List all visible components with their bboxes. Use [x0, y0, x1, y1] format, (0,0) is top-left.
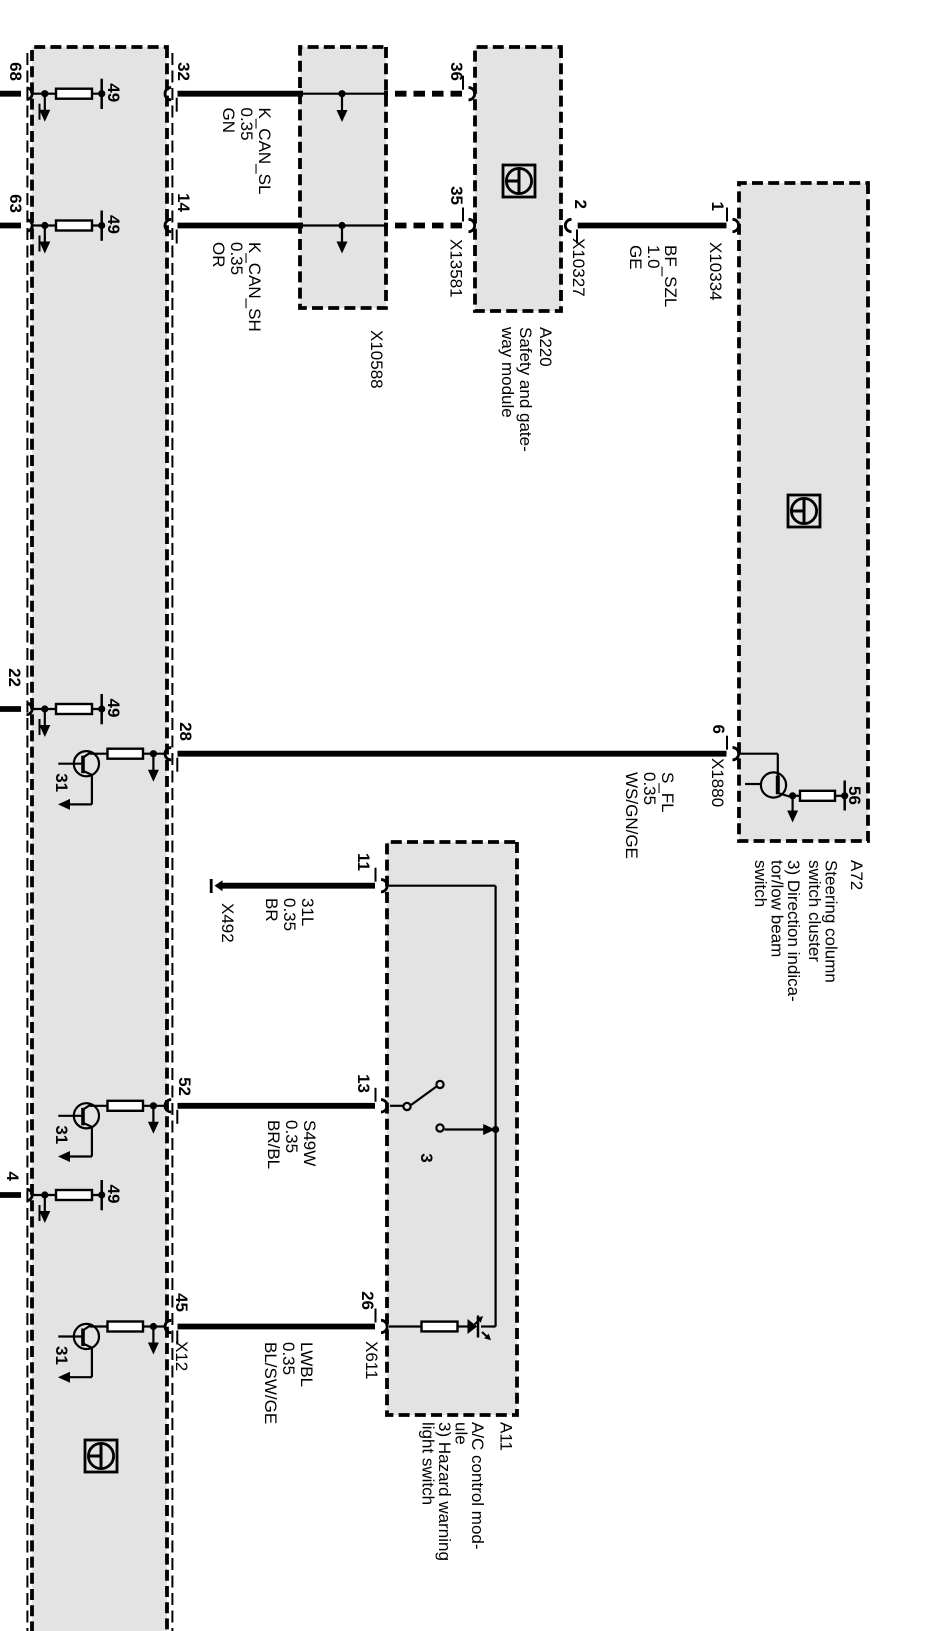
- svg-text:13: 13: [354, 1074, 373, 1093]
- svg-text:1: 1: [708, 202, 727, 211]
- svg-text:26: 26: [358, 1291, 377, 1310]
- svg-text:0.35: 0.35: [227, 242, 246, 275]
- svg-text:35: 35: [447, 186, 466, 205]
- svg-text:36: 36: [447, 62, 466, 81]
- svg-text:way module: way module: [498, 326, 517, 418]
- svg-text:BL/SW/GE: BL/SW/GE: [261, 1342, 280, 1424]
- svg-text:GE: GE: [626, 245, 645, 270]
- svg-text:K_CAN_SL: K_CAN_SL: [255, 108, 274, 195]
- svg-text:0.35: 0.35: [237, 108, 256, 141]
- svg-text:22: 22: [5, 668, 24, 687]
- svg-text:X611: X611: [362, 1341, 381, 1379]
- svg-text:X10588: X10588: [367, 330, 386, 389]
- svg-text:11: 11: [354, 853, 373, 871]
- svg-text:GN: GN: [219, 108, 238, 134]
- svg-text:S_FL: S_FL: [658, 772, 677, 813]
- svg-text:1.0: 1.0: [644, 245, 663, 269]
- svg-text:A220: A220: [536, 327, 555, 367]
- svg-text:X492: X492: [218, 903, 237, 943]
- svg-text:S49W: S49W: [300, 1120, 319, 1166]
- svg-text:A72: A72: [847, 860, 866, 890]
- svg-text:6: 6: [709, 725, 728, 734]
- svg-text:X10327: X10327: [569, 238, 588, 297]
- svg-text:0.35: 0.35: [282, 1120, 301, 1153]
- svg-text:28: 28: [176, 722, 195, 741]
- svg-text:32: 32: [174, 62, 193, 81]
- svg-text:14: 14: [174, 193, 193, 212]
- svg-text:A11: A11: [497, 1422, 516, 1451]
- svg-text:0.35: 0.35: [640, 772, 659, 805]
- svg-text:OR: OR: [209, 242, 228, 268]
- svg-text:light switch: light switch: [419, 1422, 438, 1505]
- svg-text:56: 56: [845, 786, 864, 805]
- svg-text:LWBL: LWBL: [297, 1342, 316, 1387]
- svg-text:0.35: 0.35: [279, 1342, 298, 1375]
- svg-text:BR/BL: BR/BL: [264, 1120, 283, 1169]
- svg-text:BR: BR: [262, 898, 281, 922]
- svg-text:Safety and gate-: Safety and gate-: [516, 327, 535, 452]
- svg-text:X13581: X13581: [447, 239, 466, 298]
- svg-text:2: 2: [571, 200, 590, 209]
- svg-text:WS/GN/GE: WS/GN/GE: [622, 772, 641, 859]
- svg-text:X10334: X10334: [706, 242, 725, 301]
- svg-text:31L: 31L: [298, 898, 317, 926]
- svg-text:K_CAN_SH: K_CAN_SH: [245, 242, 264, 332]
- svg-text:63: 63: [6, 194, 25, 213]
- svg-text:45: 45: [172, 1293, 191, 1312]
- svg-text:X1880: X1880: [708, 758, 727, 807]
- svg-text:52: 52: [175, 1077, 194, 1096]
- svg-text:0.35: 0.35: [280, 898, 299, 931]
- svg-text:4: 4: [3, 1172, 22, 1182]
- svg-text:X12: X12: [172, 1341, 191, 1371]
- svg-text:switch: switch: [751, 860, 770, 907]
- svg-text:3: 3: [417, 1153, 436, 1162]
- svg-text:68: 68: [6, 62, 25, 81]
- svg-text:switch cluster: switch cluster: [805, 860, 824, 962]
